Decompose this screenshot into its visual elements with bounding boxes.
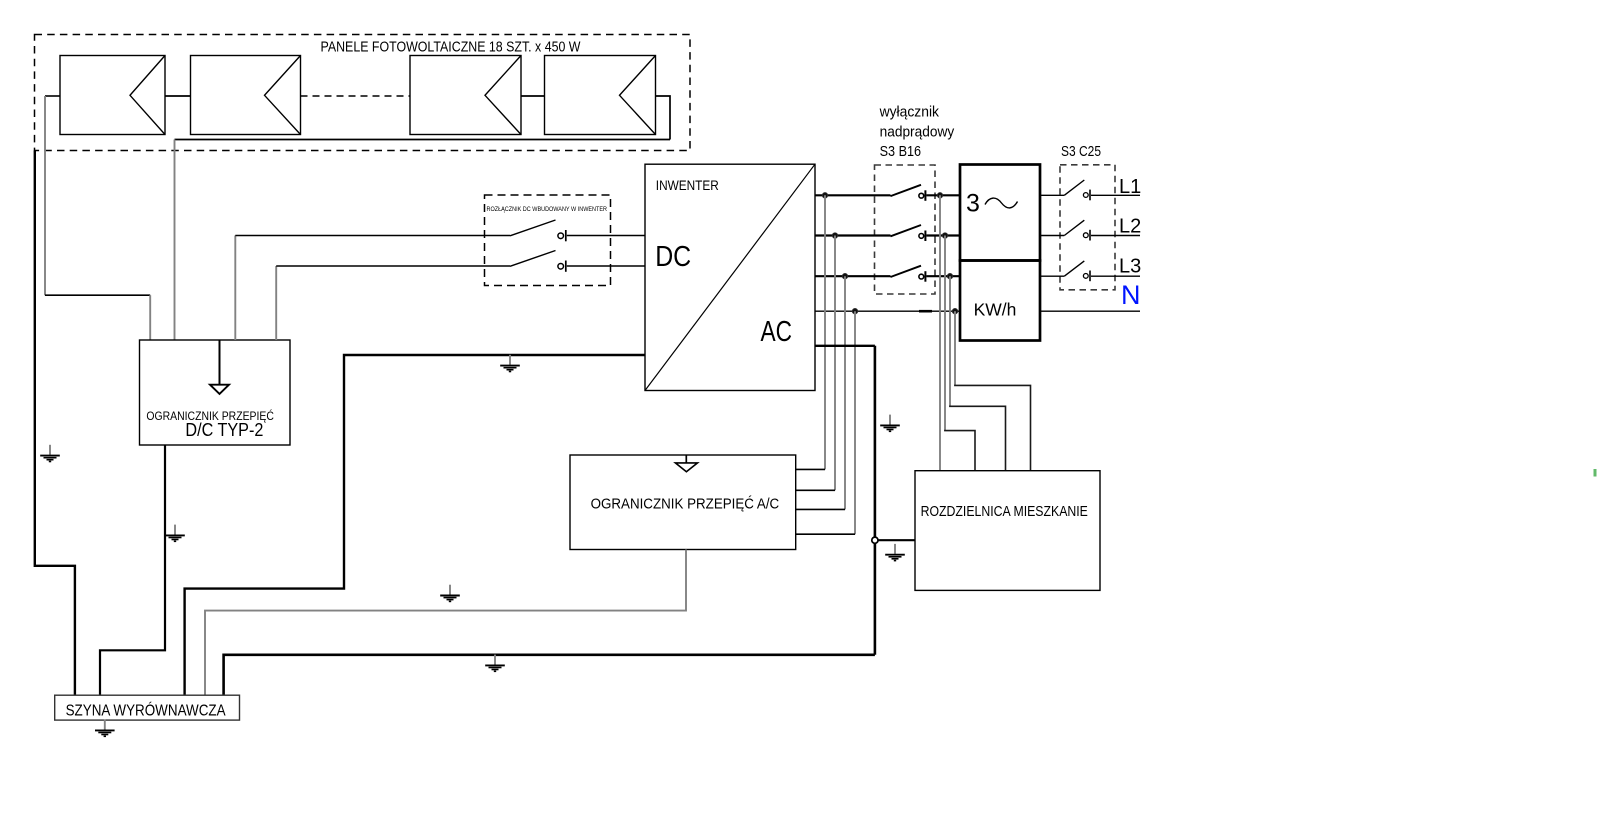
wire drop N to AC SPD (854, 311, 856, 534)
ground symbol on inverter PE wire (500, 355, 520, 372)
wire PV3-PV4 (521, 95, 545, 97)
arrester arrow symbol in A/C box (685, 455, 687, 463)
breaker pole L3 (891, 266, 961, 282)
wire DC+ to DC switch S1a (235, 235, 510, 237)
meter sine symbol (985, 198, 1018, 208)
wire AC L3 inverter to breaker (815, 275, 891, 277)
junction L1 drop (822, 193, 828, 199)
switch pole C25 L2 (1064, 220, 1140, 240)
junction N to dwelling panel (952, 308, 958, 314)
ground symbol above AC-SPD return wire (440, 585, 460, 602)
junction L3 to dwelling panel (947, 273, 953, 279)
wire AC L1 inverter to breaker (815, 194, 891, 196)
N wire overstroke segment (919, 310, 932, 313)
wire DC+ riser from SPD (234, 236, 236, 341)
junction L1 to dwelling panel (937, 193, 943, 199)
svg-text:ROZŁĄCZNIK DC WBUDOWANY W INWE: ROZŁĄCZNIK DC WBUDOWANY W INWENTER (487, 206, 608, 213)
svg-text:S3 C25: S3 C25 (1061, 144, 1101, 160)
wire drop L2 to AC SPD (834, 236, 836, 491)
ground symbol on bottom PEN run (485, 655, 505, 672)
wire A/C SPD bottom to equipotential bar (205, 550, 686, 696)
wire string plus into DC SPD (149, 295, 151, 340)
svg-text:S3 B16: S3 B16 (880, 144, 922, 160)
ground symbol under node wire (885, 544, 905, 561)
ground symbol beside SPD down-wire (165, 525, 185, 542)
wire meter to C25 L3 (1040, 275, 1064, 277)
svg-text:D/C TYP-2: D/C TYP-2 (185, 419, 263, 440)
svg-text:INWENTER: INWENTER (656, 178, 719, 193)
wire N inverter to meter (815, 310, 960, 312)
svg-text:L1: L1 (1119, 176, 1141, 198)
wire string minus into DC SPD (174, 140, 176, 341)
wire PEN stub from inverter (815, 345, 875, 347)
PV panel PV4 (545, 56, 656, 135)
wire string plus horizontal run (45, 294, 150, 296)
breaker pole L2 (891, 225, 961, 241)
node on PEN trunk (872, 537, 878, 543)
switch pole C25 L3 (1064, 261, 1140, 281)
wire string plus vertical drop (44, 96, 46, 295)
junction L2 drop (832, 233, 838, 239)
ground symbol near PE run (40, 445, 60, 462)
wire L1 drop to dwelling panel (939, 195, 941, 470)
wire L2 fan bend into dwelling panel (944, 431, 975, 471)
wire PEN bottom run to equipotential bar (224, 655, 875, 695)
wire PV1-PV2 (165, 95, 191, 97)
svg-text:L2: L2 (1119, 216, 1141, 238)
energy meter box upper section 3-phase (960, 165, 1040, 261)
svg-text:ROZDZIELNICA MIESZKANIE: ROZDZIELNICA MIESZKANIE (921, 504, 1089, 520)
wire string plus stub from PV1 (45, 95, 60, 97)
svg-text:KW/h: KW/h (974, 300, 1017, 320)
PE conductor from PV frames (left outer run to equipotential bar) (35, 151, 75, 696)
wire AC L2 inverter to breaker (815, 234, 891, 236)
inverter PE wire to equipotential bar (185, 355, 645, 695)
wire PV2-PV3 dashed (omitted panels) (301, 95, 411, 97)
dwelling distribution board box (915, 471, 1100, 591)
wire DC- to DC switch S1b (276, 265, 510, 267)
wire drop L3 to AC SPD (844, 276, 846, 509)
surge protector box OGRANICZNIK PRZEPIEC A/C (570, 455, 796, 550)
switch pole C25 L1 (1064, 180, 1140, 200)
junction N drop (852, 308, 858, 314)
ground symbol beside PEN trunk (880, 415, 900, 432)
wire drop L1 to AC SPD (824, 195, 826, 469)
ground symbol under equipotential bar (95, 720, 115, 737)
PV panel PV3 (410, 56, 521, 135)
junction L2 to dwelling panel (942, 233, 948, 239)
junction L3 drop (842, 273, 848, 279)
wire N fan bend into dwelling panel (954, 385, 1030, 470)
wire N meter to output (1040, 310, 1140, 312)
svg-text:SZYNA WYRÓWNAWCZA: SZYNA WYRÓWNAWCZA (66, 703, 227, 720)
energy meter box lower section KW/h (960, 261, 1040, 341)
wire node to dwelling panel (878, 539, 915, 541)
svg-text:PANELE FOTOWOLTAICZNE 18 SZT.: PANELE FOTOWOLTAICZNE 18 SZT. x 450 W (321, 40, 581, 56)
main switch S3 C25 dashed box (1060, 165, 1115, 290)
PV panel PV2 (191, 56, 301, 135)
breaker S3 B16 dashed box (875, 165, 936, 294)
wire meter to C25 L1 (1040, 194, 1064, 196)
inverter box U1 (645, 164, 815, 390)
surge protector box OGRANICZNIK PRZEPIEC D/C TYP-2 (140, 340, 291, 445)
green marker artifact (1594, 469, 1597, 477)
arrester arrow symbol in D/C box (219, 340, 221, 385)
PV array dashed enclosure (35, 35, 691, 151)
wire N drop to dwelling panel (954, 311, 956, 385)
DC switch S1a (510, 220, 645, 241)
wire L2 drop to dwelling panel (944, 236, 946, 431)
wire PEN trunk vertical (874, 346, 877, 655)
svg-text:L3: L3 (1119, 256, 1141, 278)
wire L3 drop to dwelling panel (949, 276, 951, 406)
svg-text:AC: AC (761, 316, 793, 348)
DC switch S1b (510, 251, 645, 272)
breaker pole L1 (891, 185, 961, 201)
svg-text:OGRANICZNIK PRZEPIĘĆ A/C: OGRANICZNIK PRZEPIĘĆ A/C (591, 496, 780, 513)
wire DC- riser from SPD (275, 266, 277, 340)
svg-text:wyłącznik: wyłącznik (879, 105, 940, 121)
wire L3 fan bend into dwelling panel (949, 406, 1005, 470)
svg-text:DC: DC (655, 241, 691, 273)
equipotential bar box SZYNA WYROWNAWCZA (55, 695, 240, 720)
wire string minus return run (175, 139, 671, 141)
svg-text:3: 3 (966, 190, 980, 218)
wire SPD bottom to equipotential bar (100, 445, 165, 695)
PV panel PV1 (60, 56, 165, 135)
wire meter to C25 L2 (1040, 235, 1064, 237)
svg-text:N: N (1121, 280, 1141, 310)
wire string minus stub from PV4 (656, 96, 671, 140)
inverter diagonal (645, 164, 815, 390)
svg-text:nadprądowy: nadprądowy (880, 125, 955, 141)
DC disconnector dashed box (485, 195, 611, 286)
